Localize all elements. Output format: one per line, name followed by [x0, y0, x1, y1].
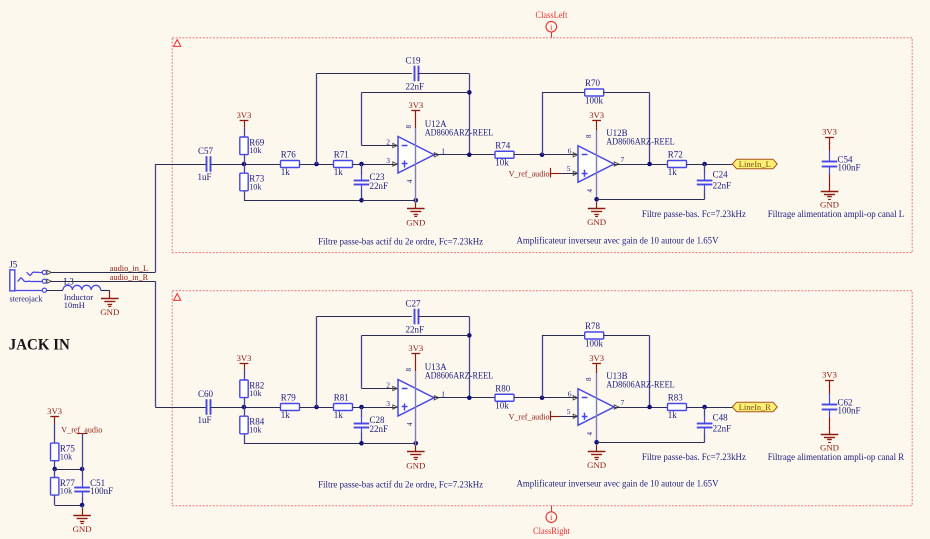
svg-text:10k: 10k — [60, 452, 73, 461]
svg-text:8: 8 — [585, 134, 593, 138]
wire V_ref_audio down — [82, 434, 84, 469]
wire to stage 2 — [514, 397, 578, 399]
capacitor C62 — [822, 404, 838, 406]
rule area top (canal L) — [172, 38, 912, 253]
capacitor C27 — [414, 309, 416, 325]
wire main 2 — [300, 164, 334, 166]
svg-text:2: 2 — [386, 380, 390, 389]
wire 3V3 to R82 — [244, 370, 246, 380]
node junction input divider — [242, 405, 247, 410]
svg-text:AD8606ARZ-REEL: AD8606ARZ-REEL — [606, 137, 675, 147]
svg-text:3V3: 3V3 — [822, 127, 837, 137]
resistor R75 — [51, 443, 59, 461]
wire main 3 — [353, 407, 398, 409]
node output stage 1 — [467, 395, 472, 400]
svg-text:8: 8 — [405, 125, 413, 129]
wire to line out — [687, 164, 733, 166]
wire main 1 — [211, 164, 281, 166]
global label LineIn_L — [732, 159, 777, 169]
node feedback branch — [467, 90, 472, 95]
svg-text:1k: 1k — [334, 167, 344, 177]
svg-text:4: 4 — [406, 422, 414, 426]
resistor R72 — [668, 161, 687, 168]
svg-text:GND: GND — [820, 200, 839, 210]
svg-text:3: 3 — [386, 156, 390, 165]
wire C51 to bottom — [82, 498, 84, 506]
resistor R78 — [585, 332, 604, 339]
wire R73 to bottom rail — [244, 191, 246, 201]
svg-text:1k: 1k — [334, 410, 344, 420]
svg-text:AD8606ARZ-REEL: AD8606ARZ-REEL — [606, 380, 675, 390]
wire 3V3 to U12B — [596, 127, 598, 130]
node junction bottom rail — [359, 441, 364, 446]
J5 ring contact — [18, 278, 22, 282]
resistor R69 — [240, 137, 248, 155]
svg-text:R72: R72 — [668, 150, 683, 160]
svg-text:GND: GND — [406, 460, 425, 470]
wire to line out — [687, 407, 733, 409]
wire main to C23 — [361, 164, 363, 174]
wire V_ref_audio to pin 5 — [551, 416, 561, 418]
wire 3V3 to U12A — [415, 118, 417, 129]
J5 tip contact — [27, 272, 30, 276]
wire 3V3 to R75 — [54, 424, 56, 444]
svg-text:22nF: 22nF — [370, 424, 389, 434]
svg-text:R81: R81 — [334, 393, 349, 403]
svg-text:3V3: 3V3 — [408, 100, 423, 110]
svg-text:10k: 10k — [495, 401, 509, 411]
wire main to C28 — [361, 407, 363, 417]
svg-text:Filtre passe-bas actif du 2e o: Filtre passe-bas actif du 2e ordre, Fc=7… — [318, 236, 483, 247]
op-amp U13A — [398, 380, 434, 417]
svg-text:10k: 10k — [249, 425, 262, 434]
svg-text:1k: 1k — [281, 167, 291, 177]
node junction op-amp ground — [414, 441, 419, 446]
svg-text:LineIn_R: LineIn_R — [739, 402, 771, 412]
rule area bottom (canal R) — [172, 291, 912, 506]
wire main to R84 — [244, 407, 246, 416]
svg-text:7: 7 — [621, 398, 625, 407]
svg-text:100k: 100k — [585, 338, 604, 348]
svg-text:10mH: 10mH — [64, 300, 85, 310]
wire to ground — [82, 505, 84, 510]
wire to C48 — [704, 407, 706, 417]
wire U12A pin4 to ground — [415, 164, 417, 202]
wire C48 to ground rail — [704, 434, 706, 443]
wire bottom rail to op-amp ground — [362, 443, 416, 445]
svg-text:3: 3 — [386, 399, 390, 408]
wire U13B pin4 to ground — [596, 417, 598, 446]
svg-text:10k: 10k — [249, 146, 262, 155]
node junction output stage 2 — [647, 405, 652, 410]
capacitor C51 branch wire — [82, 469, 84, 480]
wire feedback to inverting input — [362, 92, 470, 94]
node junction C23 — [359, 162, 364, 167]
svg-text:2: 2 — [386, 137, 390, 146]
node junction ground rail stage 2 — [594, 440, 599, 445]
node output stage 1 — [467, 152, 472, 157]
svg-text:R80: R80 — [495, 383, 511, 393]
svg-text:6: 6 — [568, 147, 572, 156]
wire feedback R70 — [542, 93, 544, 155]
svg-text:ClassRight: ClassRight — [533, 526, 570, 536]
J5 sleeve contact — [15, 290, 42, 292]
ground — [415, 445, 417, 451]
ground — [109, 292, 111, 298]
svg-text:R74: R74 — [495, 140, 511, 150]
node junction — [52, 467, 57, 472]
wire R69 to main — [244, 155, 246, 164]
resistor R77 — [51, 478, 59, 496]
svg-text:LineIn_L: LineIn_L — [739, 159, 771, 169]
svg-text:1k: 1k — [668, 167, 678, 177]
svg-text:stereojack: stereojack — [10, 293, 44, 303]
svg-text:22nF: 22nF — [370, 181, 389, 191]
wire C19 to output node — [418, 73, 469, 75]
node junction output stage 2 — [647, 162, 652, 167]
svg-text:3V3: 3V3 — [237, 110, 252, 120]
wire R84 to bottom rail — [244, 434, 246, 444]
ground — [829, 428, 831, 434]
node feedback branch — [467, 333, 472, 338]
svg-text:V_ref_audio: V_ref_audio — [509, 412, 551, 422]
svg-text:10k: 10k — [60, 487, 73, 496]
wire 3V3 to C62 — [829, 385, 831, 394]
svg-text:C60: C60 — [198, 389, 214, 399]
svg-text:8: 8 — [585, 377, 593, 381]
wire C28 to bottom rail — [361, 433, 363, 443]
svg-text:1k: 1k — [668, 410, 678, 420]
svg-text:7: 7 — [621, 155, 625, 164]
wire main 2 — [300, 407, 334, 409]
svg-text:100nF: 100nF — [838, 405, 861, 415]
svg-text:5: 5 — [567, 407, 571, 416]
wire inductor to ground — [101, 290, 110, 292]
capacitor C51 — [82, 480, 84, 487]
resistor R79 — [281, 404, 300, 411]
svg-text:GND: GND — [406, 217, 425, 227]
svg-text:Filtre passe-bas. Fc=7.23kHz: Filtre passe-bas. Fc=7.23kHz — [642, 210, 746, 220]
wire U12B pin4 to ground — [596, 174, 598, 203]
svg-text:C19: C19 — [406, 56, 422, 66]
node junction C28 — [359, 405, 364, 410]
wire R78 to output — [604, 335, 650, 337]
ground — [82, 509, 84, 515]
ground — [596, 445, 598, 451]
wire audio_in_L — [51, 272, 156, 274]
wire feedback to inverting input — [362, 335, 470, 337]
capacitor C57 — [206, 156, 208, 172]
wire R75 to junction — [54, 461, 56, 469]
resistor R76 — [281, 161, 300, 168]
svg-text:8: 8 — [405, 368, 413, 372]
svg-text:ClassLeft: ClassLeft — [536, 10, 568, 20]
node junction feedback C — [314, 162, 319, 167]
node junction feedback C — [314, 405, 319, 410]
svg-text:V_ref_audio: V_ref_audio — [509, 169, 551, 179]
svg-text:Filtre passe-bas actif du 2e o: Filtre passe-bas actif du 2e ordre, Fc=7… — [318, 479, 483, 490]
svg-text:C27: C27 — [406, 299, 422, 309]
ground — [415, 202, 417, 208]
svg-text:4: 4 — [406, 179, 414, 183]
ground — [596, 202, 598, 208]
node junction C48 — [702, 405, 707, 410]
wire main to R73 — [244, 164, 246, 173]
wire C27 to output node — [418, 316, 469, 318]
resistor R83 — [668, 404, 687, 411]
capacitor C60 — [206, 399, 208, 415]
resistor R84 — [240, 416, 248, 434]
svg-text:3V3: 3V3 — [408, 343, 423, 353]
svg-text:22nF: 22nF — [713, 180, 732, 190]
wire bottom rail to op-amp ground — [362, 200, 416, 202]
wire R82 to main — [244, 398, 246, 407]
svg-text:R76: R76 — [281, 150, 297, 160]
wire junction row — [55, 469, 82, 471]
capacitor C24 — [704, 173, 706, 180]
node junction C24 — [702, 162, 707, 167]
svg-text:100k: 100k — [585, 95, 604, 105]
svg-text:GND: GND — [587, 217, 606, 227]
wire U13B output — [615, 407, 668, 409]
node junction feedback stage 2 — [540, 395, 545, 400]
svg-text:22nF: 22nF — [713, 423, 732, 433]
node junction — [80, 503, 85, 508]
wire C62 to ground — [829, 409, 831, 417]
wire main 3 — [353, 164, 398, 166]
wire C24 to ground rail — [704, 191, 706, 200]
svg-text:R71: R71 — [334, 150, 349, 160]
wire branch up to C27 — [316, 317, 318, 408]
node junction input divider — [242, 162, 247, 167]
wire to stage 2 — [514, 154, 578, 156]
svg-text:4: 4 — [586, 432, 594, 436]
wire C23 to bottom rail — [361, 190, 363, 200]
svg-text:10k: 10k — [249, 182, 262, 191]
svg-text:J5: J5 — [9, 260, 18, 270]
capacitor C23 — [361, 173, 363, 180]
svg-text:JACK IN: JACK IN — [9, 336, 70, 353]
svg-text:Filtrage alimentation ampli-op: Filtrage alimentation ampli-op canal R — [768, 453, 905, 463]
svg-text:C24: C24 — [713, 170, 729, 180]
svg-text:3V3: 3V3 — [589, 110, 604, 120]
svg-text:GND: GND — [820, 443, 839, 453]
svg-text:R79: R79 — [281, 393, 297, 403]
svg-text:3V3: 3V3 — [237, 353, 252, 363]
svg-text:10k: 10k — [495, 158, 509, 168]
node junction op-amp ground — [414, 198, 419, 203]
svg-text:10k: 10k — [249, 389, 262, 398]
svg-text:R70: R70 — [585, 78, 601, 88]
wire audio_in_R — [51, 281, 156, 283]
svg-text:6: 6 — [568, 390, 572, 399]
resistor R70 — [585, 89, 604, 96]
resistor R82 — [240, 380, 248, 398]
wire 3V3 to U13A — [415, 361, 417, 372]
svg-text:3V3: 3V3 — [589, 353, 604, 363]
wire R77 bottom — [54, 495, 56, 505]
svg-text:AD8606ARZ-REEL: AD8606ARZ-REEL — [425, 371, 494, 381]
svg-text:1k: 1k — [281, 410, 291, 420]
resistor R80 — [495, 394, 514, 401]
svg-text:R78: R78 — [585, 321, 601, 331]
svg-text:22nF: 22nF — [406, 325, 425, 335]
wire R77 top — [54, 469, 56, 478]
svg-text:3V3: 3V3 — [822, 370, 837, 380]
ground — [829, 185, 831, 191]
wire main 1 — [211, 407, 281, 409]
wire branch up to C19 — [316, 74, 318, 165]
wire sleeve to inductor — [47, 290, 64, 292]
wire R70 to output — [604, 92, 650, 94]
resistor R81 — [334, 404, 353, 411]
svg-text:C57: C57 — [198, 146, 214, 156]
svg-text:Filtrage alimentation ampli-op: Filtrage alimentation ampli-op canal L — [768, 210, 905, 220]
capacitor C54 — [822, 161, 838, 163]
wire U13A pin4 to ground — [415, 407, 417, 445]
wire V_ref_audio to pin 5 — [551, 173, 561, 175]
svg-text:audio_in_R: audio_in_R — [110, 272, 148, 282]
wire 3V3 to R69 — [244, 127, 246, 137]
svg-text:5: 5 — [567, 164, 571, 173]
wire U12B output — [615, 164, 668, 166]
svg-text:4: 4 — [586, 189, 594, 193]
op-amp U12A — [398, 137, 434, 174]
wire C54 to ground — [829, 166, 831, 174]
svg-text:GND: GND — [73, 524, 92, 534]
svg-text:Amplificateur inverseur avec g: Amplificateur inverseur avec gain de 10 … — [517, 236, 719, 247]
resistor R73 — [240, 173, 248, 191]
op-amp U13B — [578, 389, 614, 426]
wire U12A output — [435, 154, 496, 156]
node junction — [80, 467, 85, 472]
svg-text:100nF: 100nF — [838, 162, 861, 172]
node junction ground rail stage 2 — [594, 197, 599, 202]
svg-text:C48: C48 — [713, 413, 729, 423]
resistor R74 — [495, 151, 514, 158]
node junction bottom rail — [359, 198, 364, 203]
svg-text:Filtre passe-bas. Fc=7.23kHz: Filtre passe-bas. Fc=7.23kHz — [642, 453, 746, 463]
svg-text:100nF: 100nF — [90, 486, 113, 496]
capacitor C19 — [414, 66, 416, 82]
svg-text:R83: R83 — [668, 393, 684, 403]
wire 3V3 to U13B — [596, 370, 598, 373]
svg-text:1uF: 1uF — [198, 172, 212, 182]
wire U13A output — [435, 397, 496, 399]
wire to C24 — [704, 164, 706, 174]
svg-text:GND: GND — [100, 307, 119, 317]
capacitor C48 — [704, 416, 706, 423]
wire 3V3 to C54 — [829, 142, 831, 151]
svg-text:22nF: 22nF — [406, 82, 425, 92]
svg-text:GND: GND — [587, 460, 606, 470]
resistor R71 — [334, 161, 353, 168]
capacitor C28 — [361, 416, 363, 423]
op-amp U12B — [578, 146, 614, 183]
node junction feedback stage 2 — [540, 152, 545, 157]
svg-text:Amplificateur inverseur avec g: Amplificateur inverseur avec gain de 10 … — [517, 479, 719, 490]
global label LineIn_R — [732, 402, 777, 412]
netclass directive ClassRight — [551, 506, 553, 512]
wire feedback R78 — [542, 336, 544, 398]
svg-text:1uF: 1uF — [198, 415, 212, 425]
svg-text:AD8606ARZ-REEL: AD8606ARZ-REEL — [425, 128, 494, 138]
svg-text:3V3: 3V3 — [47, 406, 62, 416]
